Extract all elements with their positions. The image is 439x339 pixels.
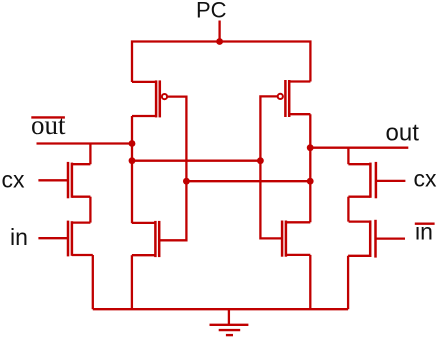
nmos M3 (inner left) channel bar (154, 221, 157, 257)
node: out column junction (307, 144, 314, 151)
nmos M5 source stub (72, 196, 91, 198)
pmos M1 gate bubble (162, 94, 167, 99)
wire: left output column (131, 116, 133, 223)
pmos M1 gate bar (159, 80, 162, 117)
svg-text:in: in (415, 219, 433, 245)
svg-text:PC: PC (196, 0, 227, 23)
svg-text:out: out (31, 110, 66, 140)
wire: M4 source to ground rail (309, 255, 311, 309)
node: wire B left junction (183, 178, 190, 185)
nmos M8 gate wire (376, 237, 405, 239)
pmos M2 gate bar (284, 80, 287, 117)
svg-text:out: out (386, 120, 420, 147)
wire: in-left source to ground rail (92, 255, 94, 309)
node: outbar column junction (129, 140, 136, 147)
wire: ground rail (93, 308, 348, 310)
nmos M3 gate bar (158, 221, 161, 257)
wire: outbar to cx-left drain (89, 144, 91, 165)
nmos M5 gate wire (38, 179, 67, 181)
nmos M4 gate bar (281, 221, 284, 257)
pmos M1 channel bar (155, 80, 158, 117)
nmos M8 channel bar (369, 220, 372, 257)
svg-text:in: in (10, 224, 28, 250)
ground symbol bar 3 (226, 334, 233, 336)
node: wire B right junction (307, 178, 314, 185)
nmos M8 source stub (348, 255, 370, 257)
wire: cross-couple A (outbar to right gates) (132, 160, 260, 162)
nmos M5 gate bar (67, 162, 70, 198)
wire: M3 source to ground rail (131, 255, 133, 309)
nmos M7 gate wire (376, 180, 405, 182)
nmos M3 source stub (132, 254, 156, 256)
nmos M7 (cx right) drain stub (348, 163, 370, 165)
wire: PC stem (218, 21, 220, 42)
nmos M6 gate bar (67, 221, 70, 257)
nmos M3 drain stub (132, 222, 156, 224)
nmos M4 (inner right) channel bar (285, 221, 288, 257)
label outbar overbar (31, 116, 65, 118)
node: PC junction (216, 38, 223, 45)
pmos M2 channel bar (288, 80, 291, 117)
nmos M5 channel bar (71, 163, 74, 198)
wire: cx-right to inbar-right series (347, 197, 349, 222)
wire: outbar net horizontal (37, 142, 133, 144)
wire: right gate net (pmos M2 + nmos M4 gates) (260, 96, 282, 238)
wire: left gate net (pmos M1 + nmos M3 gates) (160, 97, 186, 241)
wire: precharge top rail with both legs (132, 42, 310, 83)
svg-text:cx: cx (414, 166, 438, 192)
pmos M2 (right precharge) source stub (289, 80, 311, 82)
nmos M6 (in left) drain stub (72, 221, 91, 223)
ground symbol bar 2 (219, 329, 241, 331)
nmos M7 channel bar (369, 163, 372, 198)
nmos M6 channel bar (71, 221, 74, 256)
node: wire A right junction (257, 157, 264, 164)
nmos M8 (inbar right) drain stub (349, 220, 371, 222)
wire: out to cx-right drain (347, 148, 349, 165)
pmos M2 drain stub (289, 113, 311, 115)
nmos M7 gate bar (375, 162, 378, 198)
ground symbol stem (228, 309, 230, 325)
nmos M7 source stub (348, 196, 370, 198)
wire: cross-couple B (out to left gates) (186, 180, 310, 182)
nmos M6 gate wire (38, 237, 67, 239)
pmos M2 gate bubble (278, 94, 283, 99)
nmos M4 source stub (286, 254, 310, 256)
wire: right output column (309, 114, 311, 222)
label inbar overbar (415, 222, 435, 224)
wire: inbar-right source to ground rail (347, 256, 349, 309)
pmos M1 drain stub (132, 115, 157, 117)
wire: out net horizontal (310, 147, 408, 149)
svg-text:cx: cx (2, 167, 26, 193)
node: wire A left junction (129, 157, 136, 164)
nmos M4 drain stub (286, 221, 310, 223)
nmos M6 source stub (72, 254, 93, 256)
nmos M8 gate bar (374, 220, 377, 258)
wire: cx-left to in-left series (89, 197, 91, 223)
ground symbol bar 1 (210, 324, 249, 326)
nmos M5 (cx left) drain stub (72, 163, 91, 165)
pmos M1 (left precharge) source stub (132, 81, 157, 83)
